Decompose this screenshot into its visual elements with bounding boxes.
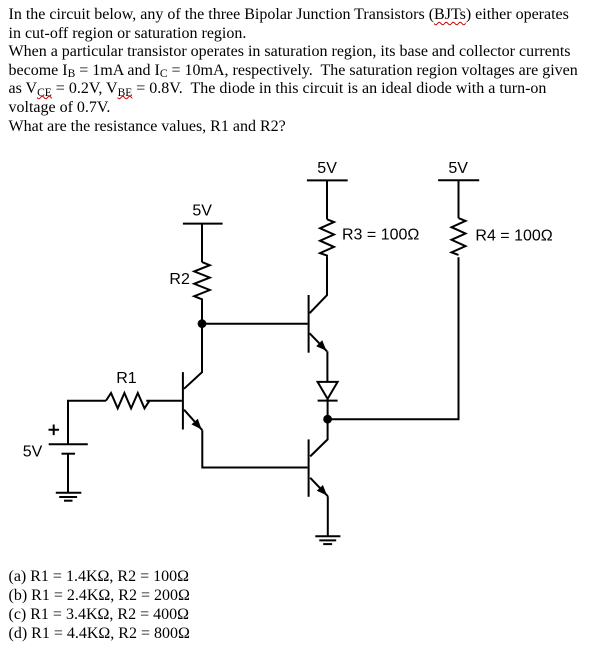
svg-text:5V: 5V (192, 203, 212, 220)
node B (junction dot) (323, 415, 332, 424)
transistor Q2 (309, 295, 327, 353)
wire diode cathode to node B (327, 399, 329, 419)
wire battery negative to ground (67, 454, 69, 493)
wire Q1 emitter to Q3 base (202, 430, 307, 467)
wire battery positive to R1 (68, 401, 106, 445)
wire R1 to Q1 base (146, 400, 182, 402)
diode D1 (318, 382, 338, 401)
transistor Q1 (183, 372, 202, 430)
wire node A to Q2 base (202, 323, 308, 325)
wire R3 to Q2 collector (310, 256, 327, 313)
svg-text:R1: R1 (116, 370, 137, 387)
svg-text:5V: 5V (23, 443, 43, 460)
power 5V supply above R2 (183, 203, 223, 263)
svg-text:5V: 5V (448, 160, 468, 177)
svg-text:R2: R2 (169, 271, 190, 288)
resistor R1 (106, 393, 149, 408)
svg-text:5V: 5V (317, 160, 337, 177)
ground (battery) (56, 493, 82, 501)
svg-text:R4 = 100Ω: R4 = 100Ω (475, 228, 552, 245)
ground (Q3 emitter) (315, 536, 340, 544)
resistor R3 (320, 219, 334, 256)
resistor R2 (194, 262, 210, 324)
wire Q2 emitter to diode anode (326, 351, 328, 382)
wire Q3 emitter to ground (327, 496, 329, 536)
battery V1 5V (23, 425, 88, 461)
wire node B to Q3 collector (310, 419, 327, 456)
power 5V supply above R3 (307, 160, 348, 219)
transistor Q3 (309, 439, 328, 496)
svg-text:R3 = 100Ω: R3 = 100Ω (342, 227, 419, 244)
node A (junction dot) (198, 319, 207, 328)
power 5V supply above R4 (438, 160, 479, 218)
resistor R4 (452, 218, 466, 255)
wire node B to R4 (328, 257, 459, 419)
wire node A to Q1 collector (184, 324, 202, 389)
